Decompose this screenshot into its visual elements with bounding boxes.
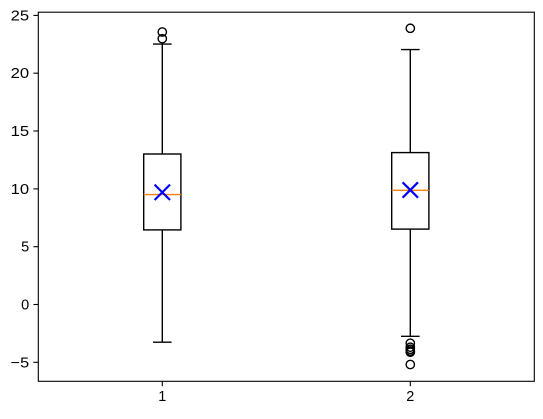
y tick 20 — [33, 72, 38, 74]
boxplot 2: median line — [392, 189, 429, 191]
y tick 25 — [33, 14, 38, 16]
boxplot 2: low flier 5 — [406, 348, 414, 356]
boxplot 2: low flier 1 — [406, 339, 414, 347]
boxplot 2: mean marker X — [403, 182, 418, 197]
svg-text:−5: −5 — [11, 355, 30, 371]
boxplot 2: low flier 4 — [406, 347, 414, 355]
y tick 10 — [33, 188, 38, 190]
y tick -5 — [33, 361, 38, 363]
y tick 0 — [33, 304, 38, 306]
boxplot 1: upper cap — [153, 43, 172, 45]
boxplot 1: mean marker X — [155, 185, 170, 200]
boxplot 1: lower cap — [153, 341, 172, 343]
svg-text:0: 0 — [21, 298, 29, 314]
svg-text:10: 10 — [11, 182, 30, 198]
boxplot 1: median line — [144, 194, 181, 196]
svg-text:5: 5 — [21, 240, 29, 256]
x tick 2 — [409, 381, 411, 386]
boxplot 1: flier at ~23.0 — [158, 35, 166, 43]
y tick 15 — [33, 130, 38, 132]
boxplot 1: box — [144, 154, 181, 230]
svg-text:1: 1 — [158, 389, 166, 405]
boxplot 1: flier at ~23.5 — [158, 28, 166, 36]
boxplot 2: upper whisker — [409, 50, 411, 153]
boxplot 2: low flier 3 — [406, 345, 414, 353]
svg-text:2: 2 — [406, 389, 414, 405]
boxplot 2: lower cap — [401, 335, 420, 337]
boxplot 1: lower whisker — [161, 230, 163, 342]
x tick 1 — [161, 381, 163, 386]
y tick 5 — [33, 246, 38, 248]
boxplot 2: box — [392, 153, 429, 230]
boxplot 2: flier at ~23.9 — [406, 24, 414, 32]
boxplot 2: lowest flier at ~-5.2 — [406, 360, 414, 368]
svg-text:25: 25 — [11, 8, 30, 24]
boxplot 2: low flier 2 — [406, 343, 414, 351]
svg-text:15: 15 — [11, 124, 30, 140]
boxplot 1: upper whisker — [161, 44, 163, 154]
svg-text:20: 20 — [11, 66, 30, 82]
boxplot 2: lower whisker — [409, 229, 411, 336]
boxplot 2: upper cap — [401, 49, 420, 51]
